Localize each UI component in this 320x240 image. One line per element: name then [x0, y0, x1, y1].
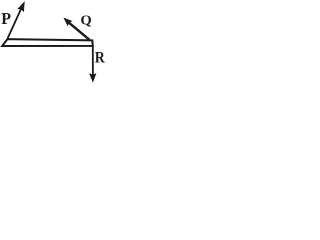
force arrow Q (shaft) — [69, 22, 90, 39]
label Q — [80, 12, 91, 27]
label P — [1, 9, 11, 28]
svg-text:P: P — [1, 9, 11, 28]
svg-text:R: R — [95, 49, 105, 66]
label R — [95, 49, 105, 66]
rod (horizontal bar parallelogram) — [2, 39, 93, 46]
force arrow Q (head) — [63, 18, 72, 27]
force arrow P (head) — [17, 1, 24, 12]
svg-text:Q: Q — [80, 12, 91, 27]
force arrow R (shaft) — [92, 46, 94, 77]
force arrow R (head) — [89, 73, 96, 82]
force arrow P (shaft) — [8, 9, 22, 39]
